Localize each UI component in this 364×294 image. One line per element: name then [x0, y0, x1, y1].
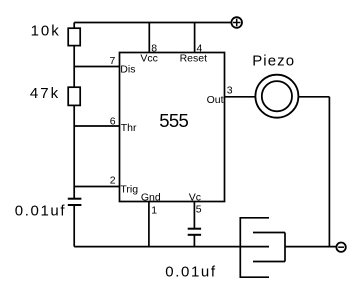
wire C1 bottom lead: [73, 205, 75, 247]
battery left electrode: [240, 217, 269, 278]
wire pin2 to Trig: [74, 186, 119, 188]
svg-text:0.01uf: 0.01uf: [165, 264, 216, 281]
wire pin6 to Thr: [74, 125, 119, 127]
piezo transducer inner circle: [262, 81, 292, 111]
svg-text:555: 555: [159, 110, 188, 131]
svg-text:Vcc: Vcc: [140, 53, 158, 65]
wire battery to minus terminal: [285, 246, 336, 248]
svg-text:10k: 10k: [31, 23, 61, 40]
battery right electrode: [253, 233, 285, 262]
wire piezo to right: [299, 96, 330, 98]
wire pin8 Vcc drop: [148, 23, 150, 53]
svg-text:7: 7: [110, 55, 116, 67]
wire top rail Vcc: [74, 22, 231, 24]
wire left vertical chain: [73, 23, 75, 199]
svg-text:Dis: Dis: [120, 63, 135, 75]
wire right vertical: [328, 97, 330, 247]
wire pin3 Out to piezo: [225, 96, 256, 98]
capacitor C2 plates: [188, 229, 201, 235]
capacitor C1 plates: [68, 199, 82, 205]
wire pin1 Gnd down: [148, 202, 150, 247]
svg-text:3: 3: [227, 84, 233, 96]
svg-text:2: 2: [110, 175, 116, 187]
svg-text:5: 5: [196, 204, 202, 216]
wire pin7 to Dis: [74, 66, 119, 68]
svg-text:47k: 47k: [30, 85, 60, 102]
svg-text:Thr: Thr: [121, 122, 137, 134]
IC U1 555 box: [120, 53, 225, 202]
svg-text:6: 6: [110, 115, 116, 127]
wire bottom rail: [74, 246, 269, 248]
svg-text:Reset: Reset: [180, 53, 208, 65]
svg-text:1: 1: [151, 205, 157, 217]
wire C2 bottom lead: [193, 235, 195, 247]
svg-text:Gnd: Gnd: [141, 192, 161, 204]
resistor R1 10k: [68, 28, 80, 45]
wire pin5 Vc down: [193, 202, 195, 229]
wire pin4 Reset drop: [194, 23, 196, 53]
power terminal plus: [231, 17, 242, 28]
svg-text:Out: Out: [207, 94, 224, 106]
svg-text:0.01uf: 0.01uf: [15, 203, 66, 220]
piezo transducer outer circle: [255, 75, 298, 118]
resistor R2 47k: [68, 87, 80, 105]
power terminal minus: [336, 243, 345, 252]
svg-text:Trig: Trig: [120, 184, 138, 196]
svg-text:Piezo: Piezo: [252, 53, 295, 70]
svg-text:Vc: Vc: [189, 192, 201, 204]
